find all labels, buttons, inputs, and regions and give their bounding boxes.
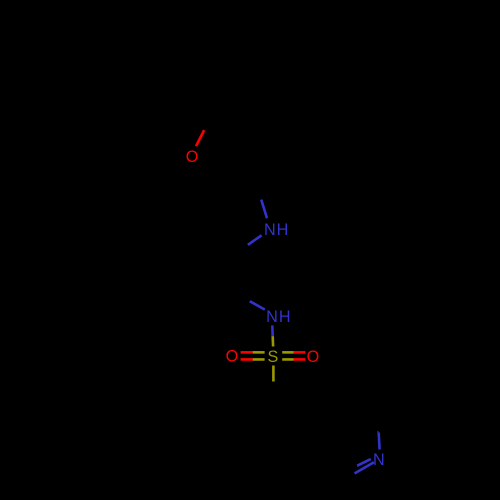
bond N3-S1, nitrogen half (blue)	[271, 325, 274, 336]
bond O1-C10 ether, carbon half (black)	[204, 119, 209, 131]
double bond N4=C3 main line, carbon half (black)	[345, 474, 355, 480]
bond C11-C12 (black)	[251, 149, 258, 190]
svg-text:S: S	[267, 348, 279, 366]
double bond S1=O2 left, line2 oxygen half (red)	[241, 358, 253, 361]
top phenyl ring (carbon bonds, black)	[174, 37, 245, 119]
bond C10-C11 (black)	[209, 119, 251, 149]
svg-text:N: N	[373, 451, 386, 469]
bond N2-C13, carbon half (black)	[236, 245, 248, 253]
double bond S1=O2 left, line2 sulfur half (olive)	[253, 358, 265, 361]
double bond N4=C3 main line, nitrogen half (blue)	[355, 462, 374, 473]
bond N3-C14, carbon half (black)	[237, 293, 249, 301]
double bond S1=O3 right, line1 oxygen half (red)	[294, 351, 306, 354]
bond C1-N4, carbon half (black)	[378, 418, 381, 433]
isoquinoline benzo ring (black)	[238, 398, 309, 480]
svg-text:O: O	[307, 348, 321, 366]
svg-text:NH: NH	[264, 221, 289, 239]
isoquinoline pyridine ring carbon bonds (black)	[309, 398, 380, 480]
double bond S1=O3 right, line2 sulfur half (olive)	[282, 358, 294, 361]
svg-text:NH: NH	[266, 308, 291, 326]
bond N3-C14, nitrogen half (blue)	[250, 301, 265, 310]
bond N3-S1, sulfur half (olive)	[271, 336, 274, 346]
bond C13-C14 (black)	[236, 253, 237, 294]
bond S1-C5 ring attachment, sulfur half (olive)	[272, 366, 275, 382]
svg-text:O: O	[186, 148, 200, 166]
double bond S1=O3 right, line1 sulfur half (olive)	[282, 351, 294, 354]
double bond N4=C3 inner line, carbon half (black)	[353, 466, 357, 468]
bond C1-N4, nitrogen half (blue)	[379, 431, 380, 450]
double bond S1=O3 right, line2 oxygen half (red)	[294, 358, 306, 361]
bond S1-C5, carbon half (black)	[272, 382, 275, 398]
bond N2-C13, nitrogen half (blue)	[248, 235, 262, 245]
bond O1-C10 ether, red half	[196, 130, 204, 146]
double bond S1=O2 left, line1 sulfur half (olive)	[253, 351, 265, 354]
bond N2-C12, nitrogen half (blue)	[261, 200, 267, 219]
bond N2-C12, carbon half (black)	[258, 190, 261, 200]
double bond N4=C3 inner line, nitrogen half (blue)	[357, 459, 371, 466]
svg-text:O: O	[226, 347, 240, 365]
double bond S1=O2 left, line1 oxygen half (red)	[241, 351, 253, 354]
